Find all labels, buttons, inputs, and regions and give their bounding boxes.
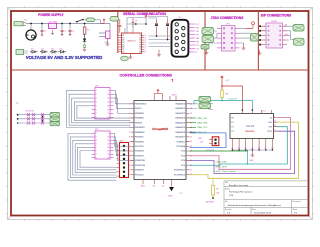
svg-text:PA0/ADC0: PA0/ADC0: [175, 103, 185, 106]
wires headers to ATmega: [114, 90, 131, 160]
tiny vcc mark below title: [171, 79, 173, 82]
capacitor C2: [61, 30, 64, 34]
svg-text:PA4/ADC4: PA4/ADC4: [175, 121, 185, 124]
svg-text:3: 3: [145, 40, 146, 42]
svg-text:PB2/AIN0: PB2/AIN0: [135, 112, 145, 115]
svg-text:C8: C8: [122, 51, 124, 53]
svg-text:C1: C1: [44, 31, 46, 33]
svg-text:PD4/OC1B: PD4/OC1B: [135, 160, 146, 162]
svg-text:7: 7: [96, 154, 97, 156]
svg-text:PD3/INT1: PD3/INT1: [135, 155, 145, 157]
input terminal dots: [17, 114, 19, 116]
green terminal block 2: [50, 117, 60, 121]
svg-text:PC1/SDA: PC1/SDA: [176, 145, 185, 148]
svg-text:1: 1: [145, 35, 146, 37]
varistor symbols rows: [27, 113, 44, 125]
connector X1 power input: [14, 22, 23, 26]
SL1 gnd: [106, 39, 110, 46]
pin header JP2: [95, 88, 110, 120]
svg-text:Puehringer/Teil <girvan>: Puehringer/Teil <girvan>: [229, 191, 253, 194]
svg-text:GPIO_GPIO: GPIO_GPIO: [216, 166, 228, 168]
ATmega pins left and right: [131, 104, 190, 175]
wire loops upper group: [67, 90, 131, 127]
svg-text:40: 40: [190, 136, 192, 138]
svg-text:Sheet: Sheet: [293, 208, 298, 211]
svg-text:12: 12: [274, 130, 276, 132]
wire purple loop: [190, 131, 295, 173]
svg-text:10: 10: [274, 121, 276, 123]
svg-text:11: 11: [274, 125, 276, 127]
JTAG gnd right: [242, 43, 246, 50]
wire pink loop: [190, 118, 291, 170]
svg-text:10k: 10k: [216, 193, 219, 195]
section divider lines: [11, 11, 309, 70]
connector SV2: [120, 143, 129, 178]
svg-text:Author: Author: [225, 187, 230, 190]
polarized capacitor C8: [166, 20, 169, 40]
capacitor C1: [41, 30, 44, 35]
svg-text:10: 10: [107, 137, 109, 139]
svg-text:Revision: Revision: [225, 209, 232, 211]
svg-text:JTAG_TMS: JTAG_TMS: [197, 121, 208, 124]
svg-text:CONTROLLER CONNECTIONS: CONTROLLER CONNECTIONS: [119, 73, 172, 77]
resistor R1 vertical: [83, 27, 86, 34]
diode D5: [83, 42, 86, 49]
diodes D1 D2 D3 row: [30, 50, 38, 53]
svg-text:14: 14: [107, 150, 109, 152]
VCC arrow serial: [145, 15, 147, 18]
wire loops lower group: [68, 134, 117, 181]
svg-text:DS2408: DS2408: [246, 126, 255, 128]
svg-text:6: 6: [96, 150, 97, 152]
svg-text:P0: P0: [232, 117, 234, 119]
JTAG vcc circle: [252, 22, 255, 25]
DB9 pin circles: [175, 23, 185, 54]
svg-text:PA1/ADC1: PA1/ADC1: [175, 107, 185, 110]
svg-text:9: 9: [108, 133, 109, 135]
svg-text:JTAG CONNECTIONS: JTAG CONNECTIONS: [211, 16, 244, 20]
wires MAX232 to DB9: [148, 17, 170, 47]
capacitor C3: [69, 30, 72, 34]
svg-text:234: 234: [200, 142, 203, 144]
svg-text:13: 13: [107, 147, 109, 149]
DS2408 bottom bus: [232, 149, 272, 151]
DB9 connector X2: [172, 20, 189, 57]
IC MAX232: [122, 33, 142, 54]
svg-text:JP7: JP7: [16, 103, 19, 105]
svg-text:5: 5: [96, 105, 97, 107]
polarized capacitor C7: [155, 20, 158, 36]
svg-text:C2: C2: [64, 31, 66, 33]
svg-text:1: 1: [96, 90, 97, 92]
svg-text:GND: GND: [250, 160, 255, 162]
svg-text:7: 7: [145, 49, 146, 51]
svg-text:2: 2: [96, 94, 97, 96]
cluster wires: [18, 115, 50, 123]
svg-text:14: 14: [107, 109, 109, 111]
ground symbols caps: [41, 34, 72, 36]
wire green net ChipD: [190, 150, 248, 151]
svg-text:35: 35: [190, 113, 192, 115]
svg-text:5: 5: [96, 147, 97, 149]
svg-text:AD7&SN: AD7&SN: [206, 201, 214, 204]
svg-text:6: 6: [145, 47, 146, 49]
junction dots rail: [30, 23, 71, 25]
svg-text:4: 4: [96, 102, 97, 104]
svg-text:PB3/AIN1: PB3/AIN1: [135, 117, 145, 120]
svg-text:Title: Title: [225, 181, 228, 184]
svg-text:GND: GND: [168, 195, 173, 197]
svg-text:ChipD_SN1: ChipD_SN1: [216, 162, 228, 164]
svg-text:T8: T8: [139, 51, 141, 53]
svg-text:12: 12: [107, 102, 109, 104]
svg-text:JTAG_TDO: JTAG_TDO: [197, 126, 208, 129]
JTAG gnd left: [205, 49, 209, 54]
svg-text:4: 4: [145, 42, 146, 44]
ISP wires: [287, 26, 294, 40]
JTAG wires: [209, 28, 250, 44]
ISP gnd: [258, 50, 262, 55]
svg-text:2: 2: [96, 137, 97, 139]
svg-text:IC1 7805: IC1 7805: [49, 21, 58, 23]
svg-text:P1: P1: [232, 122, 234, 124]
svg-text:R2 R3 R4: R2 R3 R4: [26, 111, 34, 113]
JTAG jumper green small: [201, 45, 209, 50]
svg-text:13: 13: [107, 105, 109, 107]
svg-text:CTS: CTS: [196, 48, 199, 50]
svg-text:8: 8: [145, 51, 146, 53]
JTAG header pins: [217, 28, 240, 48]
svg-text:16: 16: [107, 157, 109, 159]
svg-text:EasyElec: EasyElec: [245, 131, 255, 133]
resistor R8 pullup: [221, 90, 224, 98]
green nets right of ATmega: [190, 117, 208, 134]
svg-text:4: 4: [96, 144, 97, 146]
svg-text:PB1/T1: PB1/T1: [135, 108, 143, 110]
ISP header pins: [260, 26, 287, 44]
wire main rail: [26, 24, 83, 31]
MAX232 pins: [119, 35, 145, 51]
JTAG jumper green 1: [202, 28, 214, 35]
svg-text:PB4/SS: PB4/SS: [135, 122, 143, 124]
svg-text:8: 8: [129, 136, 130, 138]
gnd below DS2408: [251, 150, 255, 157]
JTAG header JP1: [222, 26, 236, 52]
svg-text:PB0/T0/XCK: PB0/T0/XCK: [135, 104, 147, 106]
svg-text:1: 1: [96, 133, 97, 135]
svg-text:10: 10: [107, 94, 109, 96]
bottom row connector X3: [16, 50, 24, 55]
svg-text:5: 5: [145, 44, 146, 46]
svg-text:15: 15: [107, 154, 109, 156]
fuse F1: [87, 18, 95, 22]
vcc arrow power: [101, 19, 106, 24]
svg-text:41: 41: [190, 141, 192, 143]
connector SL1: [106, 31, 111, 39]
svg-text:PB5/MOSI: PB5/MOSI: [135, 127, 145, 129]
svg-text:11: 11: [108, 98, 110, 100]
svg-text:PD7/OC2: PD7/OC2: [135, 174, 144, 176]
svg-text:8: 8: [96, 157, 97, 159]
svg-text:UCB&STX: UCB&STX: [228, 99, 238, 101]
svg-text:RTS: RTS: [196, 45, 199, 47]
svg-text:Document: Document: [293, 200, 301, 203]
svg-text:P2: P2: [232, 126, 234, 128]
green terminal block 3: [50, 122, 60, 126]
main red frame: [11, 11, 309, 216]
svg-text:Date: Date: [252, 208, 256, 211]
green terminal block 1: [50, 113, 60, 117]
svg-text:PD1/TXD: PD1/TXD: [135, 146, 144, 148]
solder jumper SJ1: [121, 56, 129, 61]
svg-text:/drive/home/exampleprojects/sc: /drive/home/exampleprojects/schematic of…: [228, 204, 282, 207]
svg-text:JTAG_TDI: JTAG_TDI: [197, 131, 207, 134]
svg-text:47: 47: [190, 169, 192, 171]
svg-text:PB6/MISO: PB6/MISO: [135, 132, 145, 134]
svg-text:PD6/ICP1: PD6/ICP1: [135, 170, 145, 172]
wire teal loop: [190, 127, 288, 166]
JTAG jumper green 2: [202, 36, 214, 43]
cyan net wire UCB_STX: [190, 98, 253, 110]
svg-text:AVCC: AVCC: [172, 93, 178, 96]
svg-text:POWER SUPPLY: POWER SUPPLY: [38, 13, 64, 17]
svg-text:15: 15: [107, 113, 109, 115]
svg-text:9: 9: [108, 90, 109, 92]
ISP header PGM1: [266, 23, 283, 48]
DS2408 right pins: [274, 118, 278, 132]
LED1: [84, 34, 86, 38]
svg-text:P3: P3: [232, 131, 234, 133]
svg-text:7: 7: [129, 132, 130, 134]
green resistor pack 1: [199, 97, 211, 103]
wire teal bus drop: [247, 150, 249, 164]
svg-text:SERIAL COMMUNICATION: SERIAL COMMUNICATION: [123, 12, 166, 16]
svg-text:PC6/TOSC1: PC6/TOSC1: [174, 170, 186, 172]
svg-text:PGM1: PGM1: [271, 21, 278, 23]
blue wire loop around SV3: [190, 133, 227, 148]
green resistor pack 2: [199, 103, 211, 109]
ground below LED: [83, 50, 87, 52]
svg-text:PC7/TOSC2: PC7/TOSC2: [174, 174, 186, 176]
svg-text:VOLTAGE 5V AND 3.3V SUPPORTED: VOLTAGE 5V AND 3.3V SUPPORTED: [26, 55, 103, 60]
svg-text:3: 3: [96, 140, 97, 142]
svg-text:PA5/ADC5: PA5/ADC5: [175, 126, 185, 129]
wire fuse to rail: [83, 20, 110, 31]
DB9 pin stubs: [189, 24, 195, 52]
title block: [224, 181, 308, 216]
varistor chain vertical: [42, 115, 44, 123]
svg-text:EasyElec (ver.num): EasyElec (ver.num): [229, 184, 248, 187]
svg-text:26.10.2005 10:23: 26.10.2005 10:23: [254, 213, 272, 215]
svg-text:PA3/ADC3: PA3/ADC3: [175, 117, 185, 120]
svg-text:3: 3: [96, 98, 97, 100]
svg-text:JP&1: JP&1: [198, 138, 202, 140]
VCC arrow above ATmega: [154, 89, 162, 93]
svg-text:JTAG_TCK: JTAG_TCK: [197, 117, 208, 120]
svg-text:R7: R7: [216, 188, 218, 190]
capacitor C5 top: [118, 19, 121, 33]
red VCC rail wire: [222, 82, 242, 110]
wire yellow loop: [190, 122, 299, 178]
DS2408 bottom pins: [232, 139, 272, 151]
svg-text:ATmega8535: ATmega8535: [152, 127, 168, 131]
ATmega bottom pins: [143, 180, 172, 187]
ISP jumper green 2: [294, 38, 305, 45]
voltage regulator IC1: [49, 23, 57, 28]
DS2408 top pins: [242, 109, 271, 114]
connector SV3: [212, 137, 219, 146]
svg-text:11: 11: [108, 140, 110, 142]
svg-text:PC0/SCL: PC0/SCL: [177, 141, 186, 143]
green fuse near divider: [110, 17, 119, 22]
svg-text:6: 6: [96, 109, 97, 111]
gnd serial 2: [157, 50, 161, 57]
svg-text:12: 12: [107, 144, 109, 146]
DS2408 inner pin labels: [232, 117, 273, 133]
svg-text:PA2/ADC2: PA2/ADC2: [175, 112, 185, 115]
ATmega top pin stubs: [154, 94, 176, 101]
svg-text:File: File: [225, 201, 228, 203]
svg-text:PD0/RXD: PD0/RXD: [135, 141, 144, 143]
svg-text:PD5/OC1A: PD5/OC1A: [135, 164, 146, 167]
svg-text:PD2/INT0: PD2/INT0: [135, 151, 145, 153]
capacitor C6 top: [132, 18, 135, 28]
svg-text:PA7/ADC7: PA7/ADC7: [175, 136, 185, 139]
IC DS2408: [230, 114, 274, 139]
svg-text:9: 9: [274, 116, 275, 118]
IC ATmega8535: [134, 101, 186, 180]
svg-text:MAX232: MAX232: [128, 40, 137, 43]
ISP jumper green 1: [293, 25, 304, 32]
svg-text:7: 7: [96, 113, 97, 115]
gnd bold below ATmega: [169, 187, 174, 191]
switch S1: [76, 20, 83, 22]
diode D4 end: [59, 50, 67, 53]
resistor R7 below: [212, 186, 215, 196]
svg-text:PB7/SCK: PB7/SCK: [135, 137, 144, 139]
JTAG jumper green right: [250, 34, 258, 42]
svg-text:PA6/ADC6: PA6/ADC6: [175, 131, 185, 134]
wires above MAX232: [125, 18, 146, 34]
svg-text:2: 2: [145, 37, 146, 39]
DC jack J1: [26, 30, 36, 40]
VCC arrow above DS2408: [221, 76, 224, 82]
svg-text:VCC2: VCC2: [267, 131, 272, 133]
svg-text:ISP CONNECTIONS: ISP CONNECTIONS: [261, 13, 292, 17]
gnd serial 1: [129, 54, 133, 59]
svg-text:GPIO_Three_Capture: GPIO_Three_Capture: [216, 170, 237, 173]
pin header JP3: [95, 131, 110, 159]
svg-text:C3: C3: [72, 31, 74, 33]
svg-text:C6: C6: [135, 21, 137, 23]
